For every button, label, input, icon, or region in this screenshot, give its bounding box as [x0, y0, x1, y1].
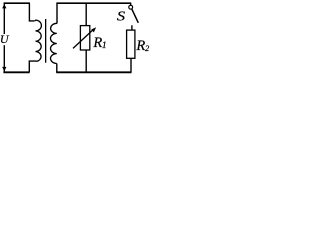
svg-text:R: R [135, 38, 145, 54]
svg-text:U: U [0, 32, 10, 46]
wire: switch lower contact stub [131, 25, 133, 30]
wire: left vertical upper (above U) [3, 3, 5, 34]
rheostat arrow through R1 [73, 30, 93, 49]
wire: secondary top rail [56, 2, 131, 4]
resistor R2 body [127, 30, 135, 58]
arrowhead up at top of source branch [2, 4, 6, 9]
wire: secondary bottom rail [56, 71, 131, 73]
transformer primary coil L1 (4 turns, bulge right) [34, 20, 41, 61]
arrowhead down at bottom of source branch [2, 67, 6, 72]
wire: left loop right vertical down to primary [29, 3, 34, 21]
transformer secondary coil L2 (4 turns, bulge left) [50, 23, 57, 63]
svg-text:S: S [117, 9, 125, 24]
transformer core [45, 19, 47, 63]
wire: left loop bottom [3, 71, 29, 73]
wire: primary bottom lead [29, 61, 36, 72]
svg-text:R: R [92, 35, 102, 51]
wire: R1 top lead [85, 3, 87, 25]
switch S blade (open) [132, 9, 139, 23]
wire: secondary top lead [56, 3, 58, 23]
wire: R2 bottom lead [130, 58, 132, 72]
wire: left loop top [4, 2, 30, 4]
svg-text:1: 1 [102, 41, 107, 51]
wire: secondary bottom lead [56, 64, 58, 73]
switch S hinge circle [129, 5, 133, 9]
wire: stub from top rail to switch hinge [130, 3, 132, 5]
wire: R1 bottom lead [85, 50, 87, 72]
resistor R1 (rheostat) body [80, 26, 89, 50]
wire: left vertical lower (below U) [3, 45, 5, 71]
